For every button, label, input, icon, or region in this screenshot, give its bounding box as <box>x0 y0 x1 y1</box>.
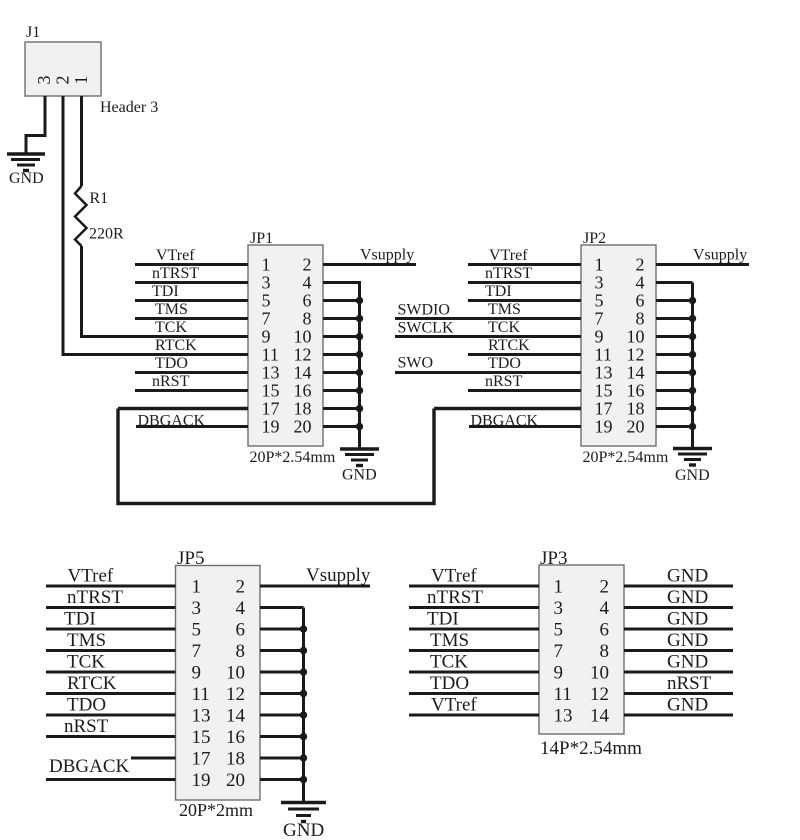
junction JP1 pin10 <box>356 333 363 340</box>
wire JP5 pin6 <box>260 628 304 631</box>
svg-text:JP5: JP5 <box>177 548 204 569</box>
svg-text:14P*2.54mm: 14P*2.54mm <box>540 738 642 759</box>
svg-text:220R: 220R <box>89 226 124 243</box>
JP1 pin numbers right column <box>294 255 312 437</box>
svg-text:4: 4 <box>600 598 610 619</box>
svg-text:15: 15 <box>192 727 211 748</box>
svg-text:8: 8 <box>303 309 312 329</box>
wire R1 to TCK net <box>80 246 83 338</box>
wire JP2 pin9 TCK SWCLK <box>395 335 581 338</box>
wire JP3 pin12 nRST <box>624 692 733 695</box>
wire JP2 pin13 TDO SWO <box>395 371 581 374</box>
svg-text:GND: GND <box>667 566 708 587</box>
svg-text:VTref: VTref <box>489 247 528 264</box>
GND bus JP5 <box>302 608 305 803</box>
wire JP2 pin12 <box>656 353 693 356</box>
wire JP1 pin7 TMS <box>135 317 248 320</box>
wire JP1 pin14 <box>323 371 360 374</box>
svg-text:5: 5 <box>262 291 271 311</box>
svg-text:TDI: TDI <box>152 283 179 300</box>
svg-text:10: 10 <box>294 327 312 347</box>
svg-text:20: 20 <box>294 417 312 437</box>
svg-text:9: 9 <box>554 663 564 684</box>
junction JP1 pin6 <box>356 297 363 304</box>
svg-text:17: 17 <box>595 399 613 419</box>
connector JP3 <box>539 565 624 734</box>
svg-text:GND: GND <box>667 609 708 630</box>
svg-text:VTref: VTref <box>68 566 114 587</box>
svg-text:12: 12 <box>226 684 245 705</box>
JP3 pin numbers left column <box>554 577 573 727</box>
svg-text:15: 15 <box>262 381 280 401</box>
wire JP1 pin9 TCK from R1 <box>80 335 248 338</box>
ground symbol at JP2 <box>673 449 712 466</box>
wire JP2 pin1 VTref <box>468 263 581 266</box>
junction JP5 pin20 <box>300 776 307 783</box>
wire JP5 pin3 nTRST <box>46 606 176 609</box>
junction JP5 pin8 <box>300 647 307 654</box>
svg-text:2: 2 <box>303 255 312 275</box>
wire JP5 pin8 <box>260 649 304 652</box>
wire JP3 pin6 GND <box>624 628 733 631</box>
JP5 pin numbers left column <box>192 577 211 792</box>
svg-text:TCK: TCK <box>488 319 520 336</box>
wire JP2 pin18 <box>656 407 693 410</box>
svg-text:10: 10 <box>226 663 245 684</box>
svg-text:TDI: TDI <box>485 283 512 300</box>
svg-text:3: 3 <box>262 273 271 293</box>
svg-text:nTRST: nTRST <box>67 587 123 608</box>
svg-text:Vsupply: Vsupply <box>693 247 747 264</box>
svg-text:SWO: SWO <box>398 355 434 372</box>
svg-text:JP2: JP2 <box>583 230 606 247</box>
wire JP1 pin6 <box>323 299 360 302</box>
wire JP3 pin1 VTref <box>409 585 539 588</box>
wire JP5 pin20 <box>260 778 304 781</box>
wire JP2 pin20 <box>656 425 693 428</box>
svg-text:Header 3: Header 3 <box>100 99 158 116</box>
wire DBGACK link JP1 to JP2 <box>118 409 434 504</box>
JP2 pin numbers right column <box>627 255 645 437</box>
wire JP2 pin10 <box>656 335 693 338</box>
svg-text:16: 16 <box>294 381 312 401</box>
wire JP5 pin9 TCK <box>46 671 176 674</box>
svg-text:6: 6 <box>303 291 312 311</box>
wire JP1 pin17 <box>118 407 248 410</box>
svg-text:14: 14 <box>226 706 246 727</box>
ground symbol at J1 <box>7 154 45 171</box>
svg-text:13: 13 <box>262 363 280 383</box>
junction JP5 pin12 <box>300 690 307 697</box>
ground symbol at JP5 <box>281 803 326 822</box>
svg-text:Vsupply: Vsupply <box>360 247 414 264</box>
svg-text:5: 5 <box>595 291 604 311</box>
svg-text:12: 12 <box>294 345 312 365</box>
svg-text:TMS: TMS <box>488 301 521 318</box>
svg-text:13: 13 <box>595 363 613 383</box>
JP2 pin numbers left column <box>595 255 613 437</box>
svg-text:4: 4 <box>303 273 312 293</box>
ground symbol at JP1 <box>340 449 379 466</box>
wire JP2 pin4 to GND bus <box>656 281 693 284</box>
svg-text:nTRST: nTRST <box>485 265 532 282</box>
wire JP3 pin5 TDI <box>409 628 539 631</box>
svg-text:SWDIO: SWDIO <box>398 302 450 319</box>
svg-text:11: 11 <box>262 345 279 365</box>
wire JP3 pin8 GND <box>624 649 733 652</box>
wire JP2 pin2 Vsupply <box>656 263 749 266</box>
svg-text:1: 1 <box>262 255 271 275</box>
svg-text:DBGACK: DBGACK <box>471 413 539 430</box>
svg-text:VTref: VTref <box>431 566 477 587</box>
svg-text:6: 6 <box>600 620 610 641</box>
svg-text:7: 7 <box>554 641 564 662</box>
wire JP1 pin10 <box>323 335 360 338</box>
svg-text:TDO: TDO <box>155 355 188 372</box>
wire J1 pin3 to GND <box>26 96 45 153</box>
svg-text:16: 16 <box>627 381 645 401</box>
JP1 pin numbers left column <box>262 255 280 437</box>
resistor R1 <box>75 186 87 246</box>
svg-text:7: 7 <box>192 641 202 662</box>
svg-text:TCK: TCK <box>67 652 105 673</box>
svg-text:SWCLK: SWCLK <box>398 320 454 337</box>
JP5 pin numbers right column <box>226 577 246 792</box>
svg-text:TDO: TDO <box>488 355 521 372</box>
svg-text:Vsupply: Vsupply <box>306 565 371 586</box>
wire JP1 pin12 <box>323 353 360 356</box>
svg-text:DBGACK: DBGACK <box>138 413 206 430</box>
wire JP1 pin20 <box>323 425 360 428</box>
wire JP3 pin14 GND <box>624 714 733 717</box>
wire JP5 pin4 to GND bus <box>260 606 304 609</box>
GND bus JP1 <box>358 283 361 449</box>
wire JP2 pin19 DBGACK <box>469 425 581 428</box>
wire JP5 pin19 DBGACK <box>46 778 176 781</box>
svg-text:11: 11 <box>595 345 612 365</box>
svg-text:nRST: nRST <box>152 373 190 390</box>
svg-text:9: 9 <box>192 663 202 684</box>
svg-text:GND: GND <box>675 467 710 484</box>
junction JP2 pin20 <box>689 423 696 430</box>
svg-text:15: 15 <box>595 381 613 401</box>
svg-text:12: 12 <box>627 345 645 365</box>
junction JP1 pin16 <box>356 387 363 394</box>
wire JP3 pin9 TCK <box>409 671 539 674</box>
junction JP2 pin12 <box>689 351 696 358</box>
GND bus JP2 <box>691 283 694 448</box>
junction JP1 pin12 <box>356 351 363 358</box>
wire JP5 pin16 <box>260 735 304 738</box>
svg-text:2: 2 <box>600 577 610 598</box>
junction JP5 pin16 <box>300 733 307 740</box>
svg-text:12: 12 <box>590 684 609 705</box>
junction JP1 pin18 <box>356 405 363 412</box>
wire JP2 pin8 <box>656 317 693 320</box>
wire JP1 pin16 <box>323 389 360 392</box>
svg-text:VTref: VTref <box>156 247 195 264</box>
svg-text:18: 18 <box>226 749 245 770</box>
wire JP3 pin3 nTRST <box>409 606 539 609</box>
wire JP2 pin6 <box>656 299 693 302</box>
svg-text:9: 9 <box>595 327 604 347</box>
wire JP5 pin12 <box>260 692 304 695</box>
wire JP1 pin1 VTref <box>135 263 248 266</box>
svg-text:11: 11 <box>192 684 210 705</box>
svg-text:GND: GND <box>667 587 708 608</box>
junction JP2 pin16 <box>689 387 696 394</box>
wire JP2 pin15 nRST <box>468 389 581 392</box>
svg-text:nRST: nRST <box>485 373 523 390</box>
junction JP2 pin10 <box>689 333 696 340</box>
wire JP1 pin4 to GND bus <box>323 283 360 285</box>
svg-text:TDI: TDI <box>427 609 459 630</box>
wire JP1 pin5 TDI <box>135 299 248 302</box>
wire JP3 pin13 VTref <box>409 714 539 717</box>
svg-text:TCK: TCK <box>155 319 187 336</box>
svg-text:TMS: TMS <box>155 301 188 318</box>
svg-text:6: 6 <box>236 620 246 641</box>
svg-text:20P*2mm: 20P*2mm <box>179 800 253 820</box>
svg-text:TMS: TMS <box>67 630 106 651</box>
svg-text:8: 8 <box>636 309 645 329</box>
junction JP2 pin18 <box>689 405 696 412</box>
svg-text:5: 5 <box>554 620 564 641</box>
wire JP2 pin3 nTRST <box>468 281 581 284</box>
svg-text:nTRST: nTRST <box>427 587 483 608</box>
svg-text:20P*2.54mm: 20P*2.54mm <box>250 449 336 466</box>
junction JP1 pin20 <box>356 423 363 430</box>
svg-text:GND: GND <box>342 467 377 484</box>
junction JP2 pin8 <box>689 315 696 322</box>
wire JP5 pin11 RTCK <box>46 692 176 695</box>
svg-text:3: 3 <box>595 273 604 293</box>
wire JP5 pin2 Vsupply <box>260 585 370 588</box>
svg-text:4: 4 <box>636 273 645 293</box>
wire J1 pin2 to RTCK net <box>62 96 65 356</box>
wire JP1 pin2 Vsupply <box>323 263 416 266</box>
svg-text:2: 2 <box>636 255 645 275</box>
svg-text:nRST: nRST <box>667 673 712 694</box>
wire JP2 pin17 <box>434 407 581 410</box>
svg-text:7: 7 <box>595 309 604 329</box>
svg-text:1: 1 <box>595 255 604 275</box>
junction JP5 pin14 <box>300 711 307 718</box>
svg-text:17: 17 <box>262 399 280 419</box>
svg-text:TDO: TDO <box>430 673 469 694</box>
wire JP2 pin7 TMS SWDIO <box>395 317 581 320</box>
svg-text:6: 6 <box>636 291 645 311</box>
svg-text:19: 19 <box>595 417 613 437</box>
svg-text:GND: GND <box>667 695 708 716</box>
wire JP5 pin7 TMS <box>46 649 176 652</box>
svg-text:14: 14 <box>294 363 312 383</box>
svg-text:19: 19 <box>192 770 211 791</box>
svg-text:18: 18 <box>627 399 645 419</box>
svg-text:20P*2.54mm: 20P*2.54mm <box>583 449 669 466</box>
wire JP5 pin10 <box>260 671 304 674</box>
svg-text:nRST: nRST <box>64 716 109 737</box>
svg-text:nTRST: nTRST <box>152 265 199 282</box>
svg-text:20: 20 <box>627 417 645 437</box>
svg-text:TDO: TDO <box>67 695 106 716</box>
junction JP5 pin6 <box>300 625 307 632</box>
wire JP3 pin2 GND <box>624 585 733 588</box>
wire J1 pin1 to R1 <box>80 96 83 186</box>
wire JP5 pin18 <box>260 757 304 760</box>
svg-text:TDI: TDI <box>64 609 96 630</box>
svg-text:13: 13 <box>554 706 573 727</box>
junction JP5 pin18 <box>300 754 307 761</box>
wire JP3 pin4 GND <box>624 606 733 609</box>
svg-text:20: 20 <box>226 770 245 791</box>
svg-text:14: 14 <box>627 363 645 383</box>
wire JP1 pin11 RTCK from J1 pin2 <box>62 353 248 356</box>
svg-text:8: 8 <box>600 641 610 662</box>
svg-text:3: 3 <box>554 598 564 619</box>
wire JP5 pin14 <box>260 714 304 717</box>
svg-text:TMS: TMS <box>430 630 469 651</box>
svg-text:19: 19 <box>262 417 280 437</box>
svg-text:JP1: JP1 <box>250 230 273 247</box>
svg-text:17: 17 <box>192 749 211 770</box>
JP3 pin numbers right column <box>590 577 610 727</box>
svg-text:J1: J1 <box>26 24 40 41</box>
svg-text:JP3: JP3 <box>540 548 567 569</box>
wire JP1 pin19 DBGACK <box>136 425 248 428</box>
svg-text:GND: GND <box>283 820 324 840</box>
wire JP3 pin11 TDO <box>409 692 539 695</box>
wire JP5 pin13 TDO <box>46 714 176 717</box>
wire JP2 pin16 <box>656 389 693 392</box>
svg-text:1: 1 <box>71 76 91 85</box>
svg-text:VTref: VTref <box>431 695 477 716</box>
svg-text:5: 5 <box>192 620 202 641</box>
svg-text:7: 7 <box>262 309 271 329</box>
junction JP1 pin14 <box>356 369 363 376</box>
svg-text:1: 1 <box>554 577 564 598</box>
connector J1 <box>25 42 101 96</box>
svg-text:2: 2 <box>236 577 246 598</box>
svg-text:TCK: TCK <box>430 652 468 673</box>
svg-text:18: 18 <box>294 399 312 419</box>
svg-text:8: 8 <box>236 641 246 662</box>
junction JP2 pin14 <box>689 369 696 376</box>
svg-text:RTCK: RTCK <box>488 337 530 354</box>
svg-text:GND: GND <box>667 630 708 651</box>
svg-text:11: 11 <box>554 684 572 705</box>
wire JP5 pin15 nRST <box>46 735 176 738</box>
svg-text:10: 10 <box>627 327 645 347</box>
svg-text:9: 9 <box>262 327 271 347</box>
svg-text:RTCK: RTCK <box>67 673 117 694</box>
svg-text:10: 10 <box>590 663 609 684</box>
svg-text:4: 4 <box>236 598 246 619</box>
wire JP2 pin14 <box>656 371 693 374</box>
connector JP1 <box>248 245 323 446</box>
wire JP1 pin18 <box>323 407 360 410</box>
wire JP5 pin17 stub <box>131 757 176 760</box>
junction JP2 pin6 <box>689 297 696 304</box>
svg-text:13: 13 <box>192 706 211 727</box>
svg-text:3: 3 <box>34 76 54 85</box>
svg-text:2: 2 <box>53 76 73 85</box>
svg-text:14: 14 <box>590 706 610 727</box>
wire JP2 pin11 RTCK <box>468 353 581 356</box>
junction JP1 pin8 <box>356 315 363 322</box>
svg-text:DBGACK: DBGACK <box>49 756 130 777</box>
connector JP2 <box>581 245 656 446</box>
wire JP5 pin1 VTref <box>46 585 176 588</box>
wire JP1 pin15 nRST <box>135 389 248 392</box>
wire JP1 pin3 nTRST <box>135 281 248 284</box>
wire JP3 pin10 GND <box>624 671 733 674</box>
svg-text:GND: GND <box>9 170 44 187</box>
wire JP3 pin7 TMS <box>409 649 539 652</box>
svg-text:GND: GND <box>667 652 708 673</box>
svg-text:RTCK: RTCK <box>155 337 197 354</box>
svg-text:R1: R1 <box>90 190 109 207</box>
wire JP2 pin5 TDI <box>468 299 581 302</box>
junction JP5 pin10 <box>300 668 307 675</box>
svg-text:1: 1 <box>192 577 202 598</box>
wire JP5 pin5 TDI <box>46 628 176 631</box>
svg-text:16: 16 <box>226 727 245 748</box>
connector JP5 <box>176 566 261 801</box>
wire JP1 pin13 TDO <box>135 371 248 374</box>
svg-text:3: 3 <box>192 598 202 619</box>
wire JP1 pin8 <box>323 317 360 320</box>
